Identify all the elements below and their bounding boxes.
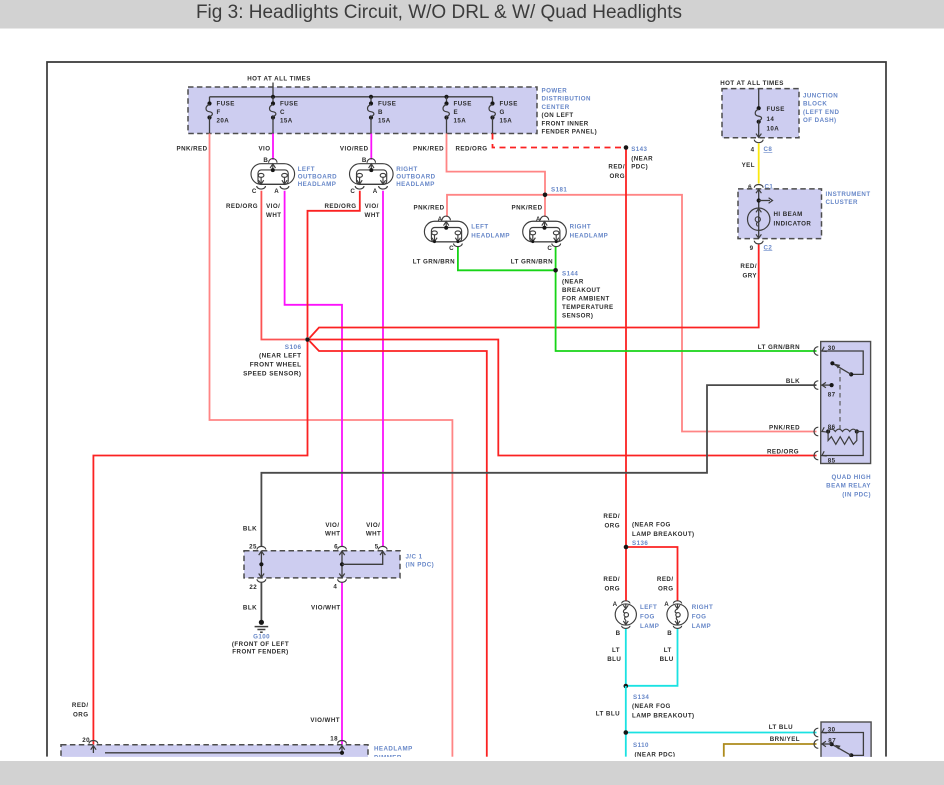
svg-text:RIGHT: RIGHT xyxy=(570,223,592,230)
svg-text:Fig 3: Headlights Circuit, W/O: Fig 3: Headlights Circuit, W/O DRL & W/ … xyxy=(196,2,682,23)
svg-text:C: C xyxy=(252,188,257,195)
svg-text:LEFT: LEFT xyxy=(298,166,315,173)
svg-text:LT GRN/BRN: LT GRN/BRN xyxy=(413,258,455,265)
svg-text:C8: C8 xyxy=(764,146,773,153)
svg-text:PNK/RED: PNK/RED xyxy=(769,424,800,431)
svg-text:FUSE: FUSE xyxy=(280,101,298,108)
svg-text:(IN PDC): (IN PDC) xyxy=(842,492,871,499)
hi beam indicator lamp xyxy=(758,189,760,239)
relay terminal connectors xyxy=(814,347,818,356)
svg-text:RED/ORG: RED/ORG xyxy=(226,203,258,210)
svg-text:FUSE: FUSE xyxy=(217,101,235,108)
svg-text:S144: S144 xyxy=(562,270,578,277)
svg-text:INDICATOR: INDICATOR xyxy=(774,220,812,227)
svg-text:VIO/WHT: VIO/WHT xyxy=(310,717,340,724)
svg-text:4: 4 xyxy=(751,147,755,154)
node S136 xyxy=(624,545,629,550)
svg-text:15A: 15A xyxy=(378,118,391,125)
svg-text:QUAD HIGH: QUAD HIGH xyxy=(832,474,872,481)
svg-text:RED/: RED/ xyxy=(603,513,620,520)
left headlamp xyxy=(424,216,468,242)
svg-text:10A: 10A xyxy=(767,126,780,133)
wire: RED/ORG S106 to quad relay 85 (middle fan) xyxy=(308,340,817,456)
svg-text:87: 87 xyxy=(828,737,836,744)
svg-text:15A: 15A xyxy=(454,118,467,125)
svg-text:(NEAR: (NEAR xyxy=(631,155,653,162)
svg-text:BRN/YEL: BRN/YEL xyxy=(770,736,800,743)
svg-text:FOR AMBIENT: FOR AMBIENT xyxy=(562,295,610,302)
svg-text:G100: G100 xyxy=(253,633,270,640)
svg-text:RIGHT: RIGHT xyxy=(396,166,418,173)
svg-text:30: 30 xyxy=(828,727,836,734)
relay actuator dashed xyxy=(839,369,841,430)
svg-text:(NEAR: (NEAR xyxy=(562,278,584,285)
bus junction dots xyxy=(271,95,275,99)
svg-text:G: G xyxy=(500,109,505,116)
svg-text:BLOCK: BLOCK xyxy=(803,101,827,108)
svg-text:WHT: WHT xyxy=(325,531,340,538)
svg-text:HOT AT ALL TIMES: HOT AT ALL TIMES xyxy=(720,80,784,87)
wire: RED/ORG S106 bottom fan down page xyxy=(310,341,487,757)
svg-text:(NEAR LEFT: (NEAR LEFT xyxy=(259,353,302,360)
svg-text:SENSOR): SENSOR) xyxy=(562,312,593,319)
fuse F 20A xyxy=(209,97,211,104)
svg-text:OUTBOARD: OUTBOARD xyxy=(396,174,435,181)
wire: VIO/WHT right outboard A to J/C1 term 5 xyxy=(382,191,384,547)
svg-text:JUNCTION: JUNCTION xyxy=(803,93,838,100)
wire: RED/ORG left outboard C to S106 xyxy=(261,191,305,340)
left outboard headlamp xyxy=(251,159,295,185)
svg-text:LT GRN/BRN: LT GRN/BRN xyxy=(511,258,553,265)
svg-text:CLUSTER: CLUSTER xyxy=(826,199,858,206)
svg-text:PNK/RED: PNK/RED xyxy=(413,146,444,153)
wire: S181 left branch to left headlamp A xyxy=(447,195,545,217)
svg-text:4: 4 xyxy=(333,583,337,590)
relay 87 stub xyxy=(821,384,832,386)
right outboard headlamp xyxy=(350,159,394,185)
svg-text:C: C xyxy=(547,245,552,252)
svg-text:POWER: POWER xyxy=(542,88,568,95)
svg-text:GRY: GRY xyxy=(742,272,757,279)
wire: LT GRN/BRN right headlamp C to S144 xyxy=(555,247,557,271)
svg-text:S134: S134 xyxy=(633,694,649,701)
svg-text:A: A xyxy=(664,601,669,608)
wire: BLK quad relay 87 to J/C1 term 25 xyxy=(261,385,816,546)
svg-text:HOT AT ALL TIMES: HOT AT ALL TIMES xyxy=(247,75,311,82)
svg-text:B: B xyxy=(378,109,383,116)
svg-text:RED/: RED/ xyxy=(657,576,674,583)
svg-text:C: C xyxy=(350,188,355,195)
svg-text:BEAM RELAY: BEAM RELAY xyxy=(826,483,871,490)
wire: VIO/WHT J/C1 term 4 to dimmer 18 xyxy=(341,582,343,745)
svg-text:A: A xyxy=(536,216,541,223)
svg-text:HEADLAMP: HEADLAMP xyxy=(570,233,609,240)
svg-text:RIGHT: RIGHT xyxy=(692,604,714,611)
svg-text:LEFT: LEFT xyxy=(471,223,488,230)
svg-text:YEL: YEL xyxy=(742,162,755,169)
J/C 1 box xyxy=(244,551,400,578)
wire: RED/ORG dashed from fuse G to S143 xyxy=(493,134,624,148)
svg-text:25: 25 xyxy=(249,543,257,550)
bottom gray band xyxy=(0,761,944,785)
wire: VIO/WHT left outboard A to J/C1 term 6 xyxy=(285,191,342,547)
wire: LT BLU right fog B to S134 xyxy=(626,628,678,685)
svg-text:F: F xyxy=(217,109,221,116)
svg-text:B: B xyxy=(616,630,621,637)
svg-text:PDC): PDC) xyxy=(631,164,648,171)
PDC bus xyxy=(210,96,493,98)
connector C2 xyxy=(754,241,763,244)
svg-text:S143: S143 xyxy=(631,146,647,153)
dimmer internal arrows xyxy=(91,746,96,750)
J/C1 internals xyxy=(260,551,262,578)
svg-text:RED/ORG: RED/ORG xyxy=(455,146,487,153)
svg-text:FRONT INNER: FRONT INNER xyxy=(542,120,589,127)
node S144 xyxy=(553,268,558,273)
svg-text:S181: S181 xyxy=(551,186,567,193)
svg-text:(NEAR FOG: (NEAR FOG xyxy=(632,703,671,710)
node S143 xyxy=(624,145,629,150)
svg-text:LAMP BREAKOUT): LAMP BREAKOUT) xyxy=(632,531,695,538)
YEL wire xyxy=(758,143,760,183)
svg-text:RED/ORG: RED/ORG xyxy=(324,203,356,210)
svg-text:LT: LT xyxy=(664,647,672,654)
svg-text:OUTBOARD: OUTBOARD xyxy=(298,174,337,181)
svg-text:BLK: BLK xyxy=(243,526,257,533)
power distribution center (PDC) box xyxy=(188,87,537,134)
svg-text:LT BLU: LT BLU xyxy=(596,711,620,718)
fog relay internals xyxy=(821,733,863,756)
junction block box xyxy=(722,89,799,138)
connector C8 xyxy=(754,140,763,143)
svg-text:S136: S136 xyxy=(632,540,648,547)
svg-text:PNK/RED: PNK/RED xyxy=(414,205,445,212)
svg-text:WHT: WHT xyxy=(366,531,381,538)
svg-text:HEADLAMP: HEADLAMP xyxy=(471,233,510,240)
svg-text:LAMP: LAMP xyxy=(692,623,711,630)
wire: LT GRN/BRN S144 to quad relay 30 xyxy=(556,270,817,351)
svg-text:LAMP: LAMP xyxy=(640,623,659,630)
svg-text:BLU: BLU xyxy=(607,656,621,663)
wire: PNK/RED fuse F run to headlamp dimmer area xyxy=(210,134,453,757)
node S110 xyxy=(624,730,629,735)
svg-text:PNK/RED: PNK/RED xyxy=(512,205,543,212)
relay internals: switch from 30 xyxy=(821,351,863,374)
wire: VIO/RED fuse B to right outboard B xyxy=(370,134,372,160)
svg-text:ORG: ORG xyxy=(73,711,88,718)
svg-text:15A: 15A xyxy=(500,118,513,125)
svg-text:LEFT: LEFT xyxy=(640,604,657,611)
svg-text:85: 85 xyxy=(828,458,836,465)
svg-text:86: 86 xyxy=(828,424,836,431)
svg-text:RED/ORG: RED/ORG xyxy=(767,448,799,455)
svg-text:HEADLAMP: HEADLAMP xyxy=(396,181,435,188)
svg-text:RED/: RED/ xyxy=(72,702,89,709)
svg-text:C: C xyxy=(280,109,285,116)
svg-text:RED/: RED/ xyxy=(603,576,620,583)
svg-text:FOG: FOG xyxy=(692,614,707,621)
svg-text:S106: S106 xyxy=(285,344,302,351)
svg-text:(LEFT END: (LEFT END xyxy=(803,109,839,116)
svg-text:FRONT WHEEL: FRONT WHEEL xyxy=(250,362,302,369)
svg-text:VIO: VIO xyxy=(258,146,270,153)
svg-text:SPEED SENSOR): SPEED SENSOR) xyxy=(243,371,301,378)
svg-text:20A: 20A xyxy=(217,118,230,125)
title bar xyxy=(0,0,944,29)
ground G100 xyxy=(259,620,264,625)
svg-text:A: A xyxy=(274,188,279,195)
wire: LT BLU S110 to fog relay 30 xyxy=(626,732,817,734)
svg-text:ORG: ORG xyxy=(658,585,673,592)
wire: LT BLU S134 to S110 xyxy=(625,686,627,733)
node S106 xyxy=(305,337,310,342)
svg-text:VIO/: VIO/ xyxy=(325,522,339,529)
fuse C 15A xyxy=(272,97,274,104)
svg-text:E: E xyxy=(454,109,459,116)
svg-text:14: 14 xyxy=(767,116,775,123)
svg-text:BLU: BLU xyxy=(660,656,674,663)
svg-text:FUSE: FUSE xyxy=(454,101,472,108)
svg-text:B: B xyxy=(667,630,672,637)
svg-text:LT BLU: LT BLU xyxy=(769,724,793,731)
svg-text:WHT: WHT xyxy=(266,212,281,219)
right fog lamp xyxy=(667,601,688,629)
svg-text:20: 20 xyxy=(82,737,90,744)
svg-text:INSTRUMENT: INSTRUMENT xyxy=(826,191,871,198)
svg-text:15A: 15A xyxy=(280,118,293,125)
svg-text:TEMPERATURE: TEMPERATURE xyxy=(562,304,614,311)
wire: PNK/RED fuse E to S181 xyxy=(447,134,546,195)
svg-text:18: 18 xyxy=(330,736,338,743)
svg-text:FUSE: FUSE xyxy=(500,101,518,108)
svg-text:A: A xyxy=(613,601,618,608)
svg-text:HI BEAM: HI BEAM xyxy=(774,211,803,218)
svg-text:(ON LEFT: (ON LEFT xyxy=(542,112,574,119)
svg-text:VIO/WHT: VIO/WHT xyxy=(311,605,341,612)
svg-text:(FRONT OF LEFT: (FRONT OF LEFT xyxy=(232,641,289,648)
connector C1 xyxy=(754,185,763,188)
svg-text:30: 30 xyxy=(828,345,836,352)
hot feed wire xyxy=(272,83,274,98)
svg-text:(NEAR FOG: (NEAR FOG xyxy=(632,522,671,529)
svg-text:FUSE: FUSE xyxy=(767,106,785,113)
svg-text:ORG: ORG xyxy=(605,523,620,530)
svg-text:(IN PDC): (IN PDC) xyxy=(406,561,435,568)
wire: S181 down to right headlamp A xyxy=(544,195,546,217)
wire: RED/GRY C2 to S106 (top fan) xyxy=(310,245,759,339)
fuse 14 10A xyxy=(758,89,760,109)
svg-text:22: 22 xyxy=(249,584,257,591)
svg-text:RED/: RED/ xyxy=(740,263,757,270)
quad high beam relay box xyxy=(821,342,871,464)
wire: LT BLU left fog B to S134 xyxy=(625,628,627,686)
svg-text:5: 5 xyxy=(375,543,379,550)
svg-text:DISTRIBUTION: DISTRIBUTION xyxy=(542,96,591,103)
fuse E 15A xyxy=(446,97,448,104)
svg-text:LAMP BREAKOUT): LAMP BREAKOUT) xyxy=(632,713,695,720)
wire: S181 right branch to quad relay 86 xyxy=(545,195,817,432)
dimmer connectors xyxy=(89,741,98,744)
right headlamp xyxy=(523,216,567,242)
svg-text:FOG: FOG xyxy=(640,614,655,621)
wire: RED/ORG S136 to right fog lamp A xyxy=(626,547,678,601)
svg-text:C2: C2 xyxy=(764,244,773,251)
svg-text:9: 9 xyxy=(750,245,754,252)
svg-text:FUSE: FUSE xyxy=(378,101,396,108)
svg-text:FRONT FENDER): FRONT FENDER) xyxy=(232,649,288,656)
node S181 xyxy=(543,193,548,198)
svg-text:J/C 1: J/C 1 xyxy=(406,553,423,560)
svg-text:B: B xyxy=(263,157,268,164)
svg-text:VIO/: VIO/ xyxy=(266,203,280,210)
wire: LT BLU S110 down off page xyxy=(625,733,627,757)
wire: LT GRN/BRN left headlamp C to S144 xyxy=(458,247,556,271)
svg-text:6: 6 xyxy=(334,543,338,550)
wire: RED/ORG S106 down to dimmer 20 xyxy=(93,340,307,745)
wire: RED/ORG S143 down to S136 xyxy=(625,148,627,548)
svg-text:RED/: RED/ xyxy=(608,164,625,171)
svg-text:C: C xyxy=(449,245,454,252)
svg-text:CENTER: CENTER xyxy=(542,104,570,111)
fuse G 15A xyxy=(492,97,494,104)
wire: RED/ORG right outboard C down-left into S106 xyxy=(308,191,360,337)
instrument cluster box xyxy=(738,189,822,239)
svg-text:PNK/RED: PNK/RED xyxy=(177,146,208,153)
svg-text:VIO/: VIO/ xyxy=(365,203,379,210)
svg-text:BLK: BLK xyxy=(243,605,257,612)
svg-text:B: B xyxy=(362,157,367,164)
page border frame xyxy=(47,62,886,757)
svg-text:HEADLAMP: HEADLAMP xyxy=(374,745,413,752)
fuse B 15A xyxy=(370,97,372,104)
svg-text:S110: S110 xyxy=(633,742,649,749)
relay coil between 86 and 85 xyxy=(826,429,830,433)
left fog lamp xyxy=(615,601,636,629)
fog lamp relay box (clipped) xyxy=(821,722,871,760)
J/C1 connectors xyxy=(257,546,266,549)
svg-text:ORG: ORG xyxy=(605,585,620,592)
node S134 xyxy=(624,684,629,689)
wire: BLK J/C1 term 22 to ground G100 xyxy=(260,582,262,621)
svg-text:WHT: WHT xyxy=(365,212,380,219)
svg-text:A: A xyxy=(373,188,378,195)
svg-text:BLK: BLK xyxy=(786,378,800,385)
wire: RED/ORG S136 to left fog lamp A xyxy=(625,547,627,601)
svg-text:HEADLAMP: HEADLAMP xyxy=(298,181,337,188)
svg-text:LT: LT xyxy=(612,647,620,654)
svg-text:LT GRN/BRN: LT GRN/BRN xyxy=(758,344,800,351)
svg-text:VIO/RED: VIO/RED xyxy=(340,146,369,153)
svg-text:VIO/: VIO/ xyxy=(366,522,380,529)
svg-text:87: 87 xyxy=(828,392,836,399)
svg-text:FENDER PANEL): FENDER PANEL) xyxy=(542,129,598,136)
wire: VIO fuse C to left outboard B xyxy=(272,134,274,160)
svg-text:A: A xyxy=(438,216,443,223)
svg-text:ORG: ORG xyxy=(610,173,625,180)
wire: BRN/YEL from off-page to fog relay 87 xyxy=(724,744,817,757)
headlamp dimmer switch box (clipped) xyxy=(61,745,368,760)
svg-text:BREAKOUT: BREAKOUT xyxy=(562,287,601,294)
svg-text:OF DASH): OF DASH) xyxy=(803,117,837,124)
